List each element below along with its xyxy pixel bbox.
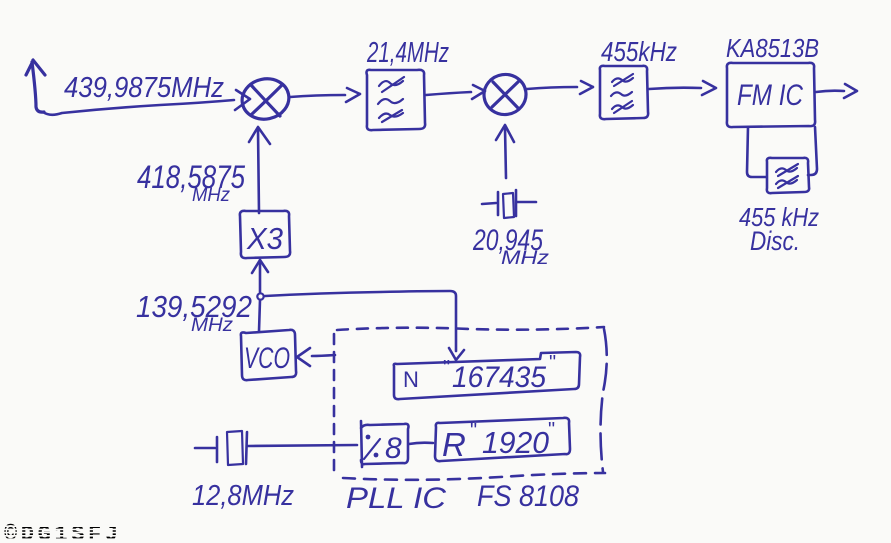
svg-text:": " xyxy=(443,357,450,379)
svg-text:12,8MHz: 12,8MHz xyxy=(192,480,294,512)
crystal Y2 xyxy=(482,190,536,218)
antenna xyxy=(26,60,45,112)
svg-text:PLL IC: PLL IC xyxy=(346,482,446,515)
svg-text:455kHz: 455kHz xyxy=(601,36,677,67)
svg-text:": " xyxy=(470,420,477,442)
svg-text:": " xyxy=(548,419,555,441)
FM IC U1 xyxy=(727,63,815,127)
multiplier X3 xyxy=(240,211,290,258)
svg-text:N: N xyxy=(403,367,419,392)
wire node to X3 xyxy=(252,260,268,292)
svg-text:KA8513B: KA8513B xyxy=(726,33,819,63)
svg-text:21,4MHz: 21,4MHz xyxy=(366,37,449,69)
PLL IC dashed boundary xyxy=(334,327,607,480)
svg-text:1920: 1920 xyxy=(482,425,549,460)
svg-text:Disc.: Disc. xyxy=(750,226,800,256)
svg-text:": " xyxy=(549,352,556,374)
node A (junction) xyxy=(257,293,263,299)
svg-text:R: R xyxy=(442,426,466,463)
wire filter FL2 to FM IC xyxy=(649,81,716,95)
wire crystal Y2 to mixer X2 xyxy=(496,125,514,178)
wire FM IC output xyxy=(816,84,857,98)
svg-text:MHz: MHz xyxy=(191,315,234,336)
divider %8 box xyxy=(361,421,409,467)
wire FM IC to discriminator (left) xyxy=(747,127,766,177)
svg-text:FS 8108: FS 8108 xyxy=(477,480,579,513)
wire mixer X1 to filter FL1 xyxy=(290,88,360,102)
discriminator 455 kHz Disc. xyxy=(767,158,809,193)
svg-text:MHz: MHz xyxy=(501,248,550,269)
IF filter FL1 21,4 MHz xyxy=(367,70,426,130)
mixer X2 xyxy=(481,72,528,117)
wire filter FL1 to mixer X2 xyxy=(426,85,485,99)
wire FM IC to discriminator (right) xyxy=(808,127,817,175)
svg-text:VCO: VCO xyxy=(244,342,290,375)
svg-text:MHz: MHz xyxy=(192,185,230,206)
wire %8 to R xyxy=(409,443,433,444)
wire node to VCO xyxy=(259,300,260,331)
divider R box xyxy=(435,418,570,463)
VCO box xyxy=(241,330,296,380)
svg-text:167435: 167435 xyxy=(452,361,546,394)
wire PLL to VCO xyxy=(297,348,335,366)
svg-text:8: 8 xyxy=(385,432,402,465)
svg-text:X3: X3 xyxy=(246,221,283,256)
wire mixer X2 to filter FL2 xyxy=(527,81,593,94)
divider N box xyxy=(394,352,580,399)
IF filter FL2 455 kHz xyxy=(600,66,648,119)
wire X3 to mixer X1 xyxy=(249,127,270,213)
watermark DG1SFJ xyxy=(0,522,125,543)
wire antenna to mixer X1 xyxy=(43,90,250,115)
wire node to divider N xyxy=(265,291,464,360)
svg-text:439,9875MHz: 439,9875MHz xyxy=(64,72,224,104)
crystal Y1 xyxy=(195,431,357,465)
mixer X1 xyxy=(238,75,292,124)
svg-text:FM IC: FM IC xyxy=(737,79,803,112)
